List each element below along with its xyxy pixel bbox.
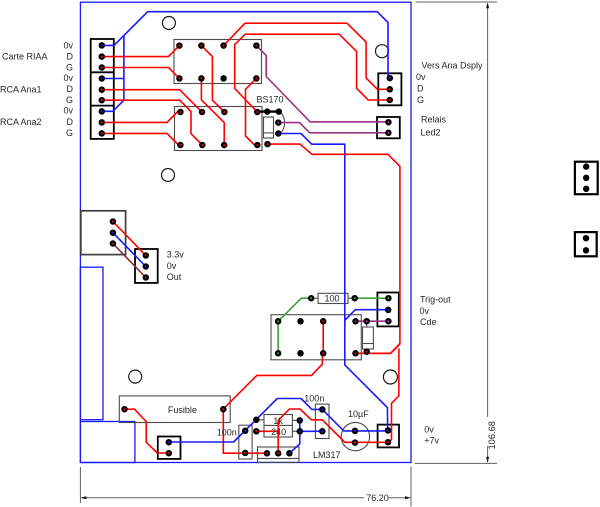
wire blue net GND top [102, 12, 388, 78]
svg-text:3.3v: 3.3v [167, 250, 185, 260]
svg-text:G: G [66, 128, 73, 138]
wire red conn pad9 to K2 p1b [102, 133, 181, 145]
resistor 100 outline [311, 293, 355, 303]
wire red conn pad5 to K2 p2t [102, 90, 202, 112]
dimension line 106.68 [487, 4, 489, 417]
connector Trig pads [385, 295, 392, 302]
wire red K1 p2b to K2 p3b [201, 78, 224, 145]
fuse Fusible outline [119, 396, 230, 423]
svg-text:Fusible: Fusible [168, 405, 197, 415]
wire red fuse right down [223, 409, 266, 453]
wire red fuse left to conn [125, 409, 169, 453]
connector Trig box [377, 293, 398, 327]
capacitor C3 pads [352, 428, 359, 435]
svg-text:Out: Out [167, 272, 182, 282]
resistor network pads [253, 417, 260, 424]
relay K1 pads [176, 42, 183, 49]
connector Relais box [377, 117, 400, 138]
hole H4 bottom-left [129, 370, 142, 383]
wire blue conn to 100n apex [169, 399, 388, 443]
connector X3 2pin pads [166, 439, 173, 446]
dimension arrow right [405, 496, 411, 499]
wire red K3 p3 vertical [322, 321, 324, 353]
svg-text:100: 100 [325, 294, 340, 304]
connector Vers box [378, 73, 401, 105]
svg-text:100n: 100n [217, 427, 237, 437]
diode D1 pads [363, 318, 370, 325]
board outline [80, 2, 411, 462]
svg-text:+7v: +7v [424, 435, 439, 445]
wire blue 3.3v 0v [113, 233, 146, 267]
capacitor 100n C2 outline [315, 404, 329, 438]
dimension arrow left [80, 496, 86, 499]
svg-text:0v: 0v [416, 72, 426, 82]
connector X3 box [158, 437, 181, 459]
svg-text:1k: 1k [273, 416, 283, 426]
capacitor 10uF C3 outline [341, 422, 369, 450]
svg-text:D: D [67, 117, 74, 127]
relay K2 pads [177, 109, 184, 116]
capacitor C1 pads [242, 428, 249, 435]
dimension extension top-right [416, 1, 498, 3]
svg-text:D: D [67, 52, 74, 62]
transistor BS170 body [257, 112, 284, 138]
PADS [99, 42, 394, 456]
ground polygon lower rect [80, 422, 134, 463]
svg-text:0v: 0v [424, 425, 434, 435]
svg-text:0v: 0v [167, 261, 177, 271]
svg-text:Carte RIAA: Carte RIAA [2, 52, 48, 62]
connector 0v +7v pads [385, 427, 392, 434]
wire green R100 right to Trig p1 [355, 297, 389, 299]
wire red conn pad8 to K2 p1t [102, 112, 181, 122]
regulator LM317 outline [258, 447, 300, 462]
wire red branch to +7v [388, 349, 399, 442]
svg-text:LM317: LM317 [313, 450, 341, 460]
connector X1 pads (Carte RIAA / RCA Ana1 / RCA Ana2) [99, 42, 106, 49]
svg-text:10µF: 10µF [348, 409, 369, 419]
wire blue LM317 p3 [289, 431, 299, 453]
dimension extension bottom-right [415, 462, 497, 464]
svg-text:100n: 100n [304, 394, 324, 404]
hole H5 bottom-right [383, 370, 397, 384]
svg-text:G: G [66, 62, 73, 72]
connector Vers pads [387, 75, 394, 82]
wire red K3 p4b diode row [356, 344, 400, 353]
svg-text:G: G [417, 95, 424, 105]
svg-text:Vers Ana Dsply: Vers Ana Dsply [422, 61, 484, 71]
dimension arrow down [486, 457, 489, 463]
dimension extension bottom-left2 [410, 467, 412, 507]
connector Relais pads [385, 119, 392, 126]
svg-text:76.20: 76.20 [366, 493, 389, 503]
TRACES [102, 12, 400, 454]
svg-text:Trig-out: Trig-out [420, 295, 451, 305]
resistor network 1k / 240 outline [256, 415, 300, 438]
connector X1 box [91, 39, 114, 139]
wire red conn pad3 to K1 p1b [102, 68, 180, 79]
wire purple K1 p4t to Relais p1 [256, 46, 388, 122]
offboard connector J2 (2 pin) [575, 232, 597, 256]
svg-text:0v: 0v [420, 306, 430, 316]
svg-text:Led2: Led2 [421, 128, 441, 138]
connector X2 box (3.3v) [135, 249, 158, 283]
wire red K3 p3b to fuse [223, 353, 322, 409]
capacitor C2 pads [319, 406, 326, 413]
dimension arrow up [486, 2, 489, 8]
wire blue branch to Trig 0v [345, 310, 388, 321]
wire red 240 left [256, 430, 278, 432]
svg-text:Cde: Cde [420, 317, 437, 327]
svg-text:RCA Ana2: RCA Ana2 [0, 117, 42, 127]
wire maroon 3.3v out [113, 244, 146, 278]
dimension line 76.20 [82, 497, 364, 499]
wire red K1 p3t to Vers D [224, 23, 390, 89]
regulator IC1 pads [110, 218, 117, 225]
hole H1 top-left [162, 17, 175, 30]
wire blue branch vertical connector [102, 36, 124, 112]
wire red BS170 source down [268, 144, 400, 353]
svg-text:0v: 0v [64, 40, 74, 50]
regulator IC1 square (3.3v) [81, 211, 126, 255]
wire blue 240 right row [300, 420, 323, 431]
wire green K3 p1 to R100 to Trig [278, 298, 311, 353]
svg-text:RCA Ana1: RCA Ana1 [0, 84, 42, 94]
wire blue BS170 down long [278, 134, 387, 431]
wire blue branch 0v ana1 [102, 78, 124, 80]
wire purple BS170 to Relais p2 [278, 123, 388, 133]
wire red inner to Vers G [235, 34, 390, 112]
svg-text:240: 240 [271, 427, 286, 437]
capacitor 100n C1 outline [239, 425, 252, 459]
resistor 100 pads [308, 295, 315, 302]
wire purple K3 p4t to Trig Cde [356, 320, 389, 322]
offboard connector J1 (3 pin) [575, 162, 598, 195]
pad centre dots [101, 44, 391, 454]
wire red conn pad2 to K1 p1t [102, 46, 180, 57]
svg-text:Relais: Relais [421, 115, 447, 125]
svg-text:G: G [66, 95, 73, 105]
svg-text:D: D [67, 84, 74, 94]
connector X2 3.3v pads [143, 252, 150, 259]
dimension extension bottom-left1 [79, 467, 81, 503]
svg-text:0v: 0v [64, 105, 74, 115]
hole H2 top-right [376, 45, 389, 58]
relay K2 outline [175, 107, 263, 151]
DIMENSIONS [80, 2, 497, 507]
wire red LM317 p2 up apex [278, 409, 388, 453]
relay K3 pads [275, 318, 282, 325]
fuse pads [121, 406, 128, 413]
wire red K1 p2t to K2 p3t [201, 46, 224, 112]
svg-text:106.68: 106.68 [487, 421, 497, 449]
diode D1 outline [363, 321, 374, 352]
svg-text:0v: 0v [64, 73, 74, 83]
hole H3 mid-left [162, 169, 175, 182]
svg-text:BS170: BS170 [257, 95, 284, 105]
wire red K1 p4b to K2 p4b [246, 78, 258, 144]
LM317 pads [264, 450, 271, 457]
wire red conn pad6 to K2 p2b [102, 100, 203, 145]
relay K3 outline [271, 315, 361, 360]
relay K1 outline [174, 40, 262, 84]
svg-text:D: D [417, 84, 424, 94]
ground polygon upper rect [80, 267, 103, 420]
transistor BS170 pads [264, 108, 271, 115]
connector 0v +7v box [378, 425, 399, 448]
wire red 3.3v in [113, 222, 146, 256]
